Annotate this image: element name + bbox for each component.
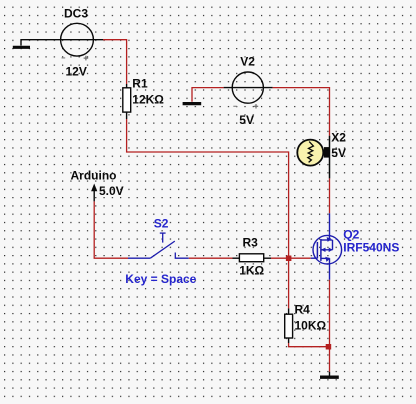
svg-text:S2: S2 — [154, 217, 169, 231]
svg-text:12V: 12V — [66, 65, 87, 79]
svg-text:DC3: DC3 — [64, 7, 88, 21]
svg-text:Arduino: Arduino — [71, 168, 117, 182]
node Arduino 5.0V arrow — [91, 184, 97, 202]
svg-text:5V: 5V — [331, 146, 346, 160]
svg-text:Q2: Q2 — [343, 228, 359, 242]
svg-text:1KΩ: 1KΩ — [239, 264, 264, 278]
ground (DC3 negative) — [13, 40, 54, 48]
ground (bottom) — [320, 372, 339, 377]
svg-text:5V: 5V — [239, 113, 254, 127]
svg-text:Key = Space: Key = Space — [125, 272, 196, 286]
svg-text:12KΩ: 12KΩ — [132, 93, 164, 107]
resistor R3 — [233, 254, 272, 262]
wire switch S2 to R3 — [189, 257, 233, 259]
node junction source net — [326, 344, 332, 350]
resistor R4 — [285, 308, 293, 343]
voltage source DC3 — [54, 23, 103, 60]
wire Arduino node to switch S2 — [94, 201, 128, 258]
ground (V2) — [183, 102, 202, 105]
svg-text:10KΩ: 10KΩ — [295, 319, 327, 333]
wire R3 to Q2 gate — [271, 257, 311, 259]
svg-text:R4: R4 — [295, 302, 311, 316]
wire lamp X2 bottom to Q2 drain — [329, 178, 331, 213]
wire V2 negative to ground — [192, 88, 224, 102]
wire Q2 source to ground — [329, 280, 331, 372]
wire R1 bottom to node junction and down to R4 — [127, 119, 289, 308]
switch S2 — [128, 233, 189, 258]
voltage source V2 — [224, 72, 273, 109]
svg-text:R1: R1 — [132, 76, 148, 90]
svg-text:IRF540NS: IRF540NS — [343, 241, 399, 255]
svg-text:X2: X2 — [331, 131, 346, 145]
wire R4 bottom to source net — [289, 343, 330, 347]
wire V2 positive to lamp X2 top — [273, 88, 330, 136]
node junction gate net — [286, 256, 292, 262]
resistor R1 — [123, 84, 131, 119]
wire DC3+ to R1 top — [103, 40, 127, 84]
svg-text:5.0V: 5.0V — [99, 184, 124, 198]
lamp X2 — [297, 136, 330, 179]
svg-text:R3: R3 — [243, 235, 259, 249]
svg-text:V2: V2 — [240, 55, 255, 69]
transistor Q2 (MOSFET) — [311, 213, 342, 279]
